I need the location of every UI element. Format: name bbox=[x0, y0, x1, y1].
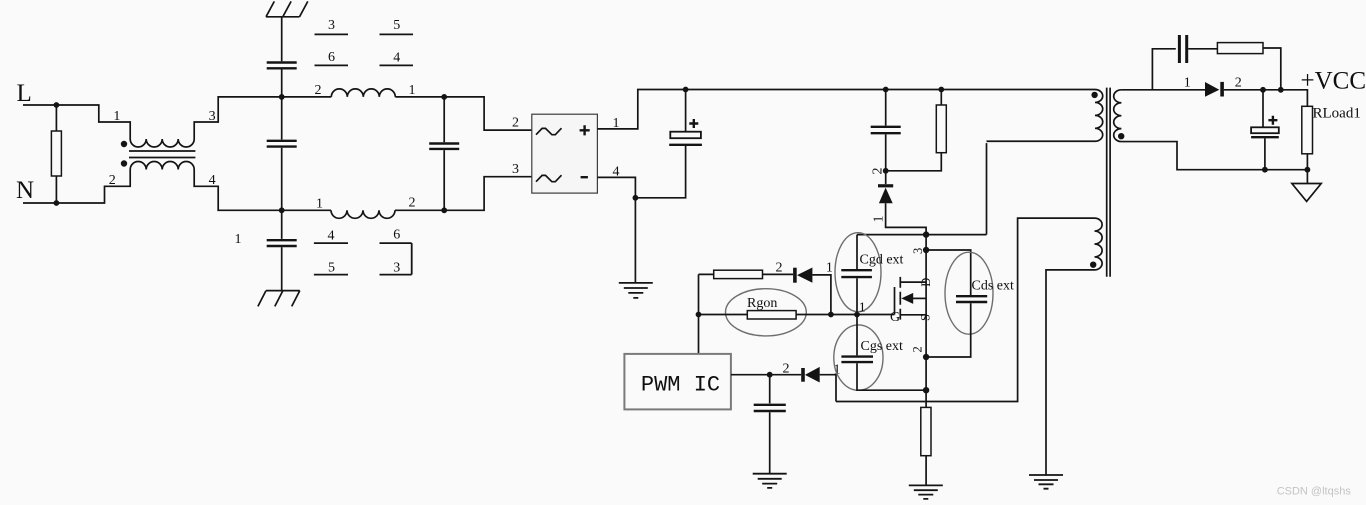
common-mode choke L1 top winding bbox=[130, 139, 194, 147]
wire bridge pin4 to ground node bbox=[597, 177, 635, 197]
svg-text:2: 2 bbox=[776, 260, 783, 275]
junction CX2 bottom bbox=[441, 207, 447, 213]
output snubber resistor R5 bbox=[1217, 43, 1263, 54]
wire PWM output to diode bbox=[770, 374, 802, 376]
junction drain node / diode bbox=[923, 231, 929, 237]
output snubber capacitor C4 bbox=[1178, 35, 1188, 63]
gate diode D3 bbox=[793, 268, 797, 283]
T1 primary polarity dot bbox=[1091, 92, 1097, 98]
gate drive resistor R3 bbox=[699, 273, 794, 275]
svg-text:2: 2 bbox=[871, 168, 886, 175]
svg-text:1: 1 bbox=[409, 83, 416, 98]
svg-text:PWM IC: PWM IC bbox=[641, 373, 720, 398]
wire PWM vcc riser bbox=[698, 274, 700, 354]
wire top rail right of L2A bbox=[395, 96, 444, 98]
common-mode choke L1 core bbox=[129, 151, 195, 158]
wire Cds bottom lead bbox=[926, 303, 971, 357]
junction N / R1 bbox=[54, 200, 60, 206]
snubber capacitor C2 bbox=[885, 90, 887, 170]
bridge AC symbol top bbox=[536, 128, 562, 135]
wire rail to bridge pin 3 bbox=[444, 177, 532, 211]
svg-text:6: 6 bbox=[328, 50, 335, 65]
choke L2 lower pin bracket bbox=[411, 243, 413, 275]
junction CY1 / top rail bbox=[279, 94, 285, 100]
svg-text:2: 2 bbox=[512, 116, 519, 131]
svg-text:4: 4 bbox=[393, 50, 400, 65]
earth ground (bridge) bbox=[619, 283, 653, 298]
capacitor CY1 (top) bbox=[267, 63, 297, 69]
svg-text:3: 3 bbox=[512, 162, 519, 177]
junction snubber / clamp diode bbox=[883, 168, 889, 174]
svg-text:2: 2 bbox=[109, 173, 116, 188]
bridge AC symbol bottom bbox=[536, 175, 562, 182]
svg-text:1: 1 bbox=[826, 261, 833, 276]
L1 top polarity dot bbox=[121, 141, 127, 147]
junction gate line / PWM riser bbox=[696, 312, 702, 318]
MOSFET Q1 gate bar bbox=[894, 287, 896, 315]
resistor RLoad1 bbox=[1302, 106, 1313, 154]
transformer T1 primary winding bbox=[987, 90, 1103, 142]
svg-text:RLoad1: RLoad1 bbox=[1313, 105, 1361, 121]
svg-text:1: 1 bbox=[316, 197, 323, 212]
L1 bottom polarity dot bbox=[121, 160, 127, 166]
svg-text:Rgon: Rgon bbox=[747, 296, 777, 311]
Cds ext ellipse bbox=[945, 252, 993, 334]
Cgs ext ellipse bbox=[834, 325, 883, 390]
capacitor CX1 (middle) bbox=[281, 97, 283, 210]
svg-text:3: 3 bbox=[393, 261, 400, 276]
wire PWM output bbox=[731, 374, 770, 376]
svg-text:CSDN @ltqshs: CSDN @ltqshs bbox=[1277, 486, 1352, 498]
wire L input bbox=[23, 105, 130, 139]
junction output cap bbox=[1260, 87, 1266, 93]
PWM diode D4 bbox=[801, 368, 805, 382]
svg-text:2: 2 bbox=[910, 346, 924, 352]
snubber resistor R2 bbox=[886, 90, 942, 171]
svg-text:1: 1 bbox=[113, 109, 120, 124]
wire snubber resistor to output node bbox=[1263, 48, 1281, 90]
common-mode choke L1 bottom winding bbox=[130, 162, 194, 170]
earth ground (PWM) bbox=[753, 474, 787, 488]
wire primary return riser bbox=[986, 143, 988, 235]
junction bulk cap positive / top rail bbox=[683, 87, 689, 93]
auxiliary return loop wire bbox=[836, 218, 1095, 401]
inductor L2A (top) bbox=[331, 89, 395, 97]
svg-text:3: 3 bbox=[911, 248, 925, 254]
junction RLoad1 / bottom rail bbox=[1305, 167, 1311, 173]
chassis ground bottom bbox=[258, 291, 300, 307]
capacitor Cds ext bbox=[956, 296, 987, 302]
junction gate line / diode branch bbox=[828, 312, 834, 318]
bridge plus mark bbox=[580, 125, 590, 135]
junction source / Cgs bbox=[923, 387, 929, 393]
MOSFET Q1 drain lead bbox=[900, 281, 926, 283]
T1 secondary polarity dot bbox=[1118, 133, 1124, 139]
junction bulk cap negative bbox=[633, 195, 639, 201]
svg-text:+VCC: +VCC bbox=[1301, 67, 1366, 94]
svg-text:Cds ext: Cds ext bbox=[972, 279, 1015, 294]
ground triangle (output) bbox=[1292, 184, 1321, 202]
bridge minus mark bbox=[581, 176, 588, 178]
Cgd ext ellipse bbox=[835, 233, 881, 312]
output capacitor C5 plus mark bbox=[1268, 116, 1277, 125]
wire secondary to output diode bbox=[1121, 89, 1205, 91]
svg-text:2: 2 bbox=[409, 196, 416, 211]
svg-text:L: L bbox=[17, 80, 32, 107]
chassis ground top bbox=[266, 1, 308, 61]
bridge rectifier D1 body bbox=[532, 114, 598, 193]
bulk capacitor C1 plus mark bbox=[689, 119, 698, 128]
bulk capacitor C1 (polarized) bbox=[635, 90, 685, 198]
junction CX2 top bbox=[441, 94, 447, 100]
wire bridge pin1 to DC top rail bbox=[597, 90, 1095, 129]
junction drain / Cds top bbox=[923, 247, 929, 253]
wire output node bbox=[1224, 90, 1308, 107]
clamp diode D2 bbox=[885, 171, 887, 184]
output snubber branch riser bbox=[1152, 49, 1175, 90]
transformer T1 core bbox=[1107, 88, 1110, 277]
wire N input bbox=[23, 170, 130, 204]
capacitor Cgd ext bbox=[856, 235, 858, 315]
output diode D5 bbox=[1205, 82, 1219, 97]
svg-text:5: 5 bbox=[328, 261, 335, 276]
junction snubber resistor / top rail bbox=[938, 87, 944, 93]
Rgon ellipse bbox=[726, 289, 807, 336]
junction snubber cap / top rail bbox=[883, 87, 889, 93]
wire rail to bridge pin 2 bbox=[444, 97, 532, 130]
svg-text:2: 2 bbox=[1235, 76, 1242, 91]
drain vertical bbox=[925, 235, 927, 391]
gate line bbox=[699, 314, 895, 316]
svg-text:1: 1 bbox=[1184, 76, 1191, 91]
svg-text:3: 3 bbox=[328, 18, 335, 33]
wire ground stem bbox=[634, 198, 636, 283]
earth ground (source) bbox=[909, 485, 943, 499]
svg-text:5: 5 bbox=[393, 18, 400, 33]
PWM IC box bbox=[624, 354, 731, 410]
svg-text:1: 1 bbox=[235, 232, 242, 247]
junction source / Cds bbox=[923, 354, 929, 360]
capacitor CY2 (bottom) bbox=[281, 210, 283, 290]
junction L / R1 bbox=[54, 102, 60, 108]
svg-text:2: 2 bbox=[783, 362, 790, 377]
svg-text:4: 4 bbox=[328, 228, 335, 243]
transformer T1 auxiliary winding bbox=[1046, 218, 1102, 474]
wire L1 pin3 to top rail bbox=[194, 97, 331, 139]
junction PWM output / cap bbox=[767, 372, 773, 378]
transformer T1 secondary winding bbox=[1114, 90, 1308, 170]
junction gate line / Cgd-Cgs node bbox=[854, 312, 860, 318]
wire Cds top lead bbox=[926, 250, 971, 295]
junction snubber / output bbox=[1278, 87, 1284, 93]
svg-text:G: G bbox=[890, 310, 900, 325]
svg-text:Cgs ext: Cgs ext bbox=[861, 339, 904, 354]
svg-text:1: 1 bbox=[872, 216, 887, 223]
inductor L2B (bottom) bbox=[331, 210, 395, 218]
wire L1 pin4 to bottom rail bbox=[194, 170, 331, 211]
svg-text:6: 6 bbox=[393, 228, 400, 243]
MOSFET Q1 source lead bbox=[900, 314, 926, 316]
T1 auxiliary polarity dot bbox=[1090, 262, 1096, 268]
drain node rail bbox=[857, 234, 987, 236]
svg-text:N: N bbox=[16, 177, 34, 204]
capacitor CX2 bbox=[443, 97, 445, 210]
MOSFET Q1 channel segments bbox=[899, 277, 901, 320]
wire bottom rail right of L2B bbox=[395, 209, 444, 211]
MOSFET Q1 body arrow bbox=[912, 297, 926, 299]
output capacitor C5 (polarized) bbox=[1263, 90, 1265, 170]
decoupling capacitor C3 bbox=[769, 375, 771, 474]
svg-text:2: 2 bbox=[315, 83, 322, 98]
capacitor Cgs ext bbox=[857, 315, 926, 391]
junction CX1 / bottom rail bbox=[279, 207, 285, 213]
resistor R1 (input) bbox=[55, 105, 57, 203]
earth ground (auxiliary) bbox=[1029, 475, 1063, 489]
svg-text:1: 1 bbox=[859, 300, 866, 315]
source sense resistor R4 bbox=[925, 390, 927, 485]
junction output cap / bottom rail bbox=[1262, 167, 1268, 173]
resistor Rgon bbox=[747, 311, 796, 319]
wire snubber cap to resistor bbox=[1188, 48, 1217, 50]
svg-text:Cgd ext: Cgd ext bbox=[860, 253, 904, 268]
